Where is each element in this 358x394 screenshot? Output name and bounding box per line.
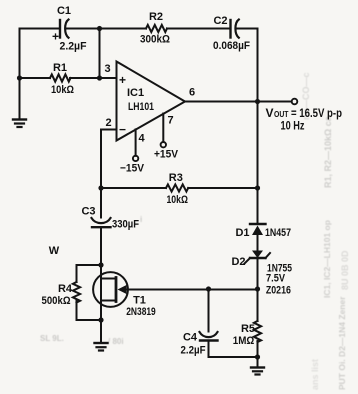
- svg-text:R2: R2: [149, 11, 163, 23]
- svg-text:1N457: 1N457: [265, 227, 291, 239]
- svg-text:C1: C1: [57, 5, 71, 17]
- svg-text:8U 0B 0D: 8U 0B 0D: [340, 250, 350, 290]
- svg-text:W: W: [49, 245, 60, 257]
- svg-text:+: +: [52, 30, 59, 44]
- svg-text:2N3819: 2N3819: [126, 306, 156, 318]
- svg-text:i: i: [140, 215, 142, 224]
- svg-text:D1: D1: [235, 227, 249, 239]
- svg-text:T1: T1: [133, 295, 146, 307]
- svg-text:IC1, IC2—LH101 op: IC1, IC2—LH101 op: [322, 220, 332, 298]
- svg-text:330µF: 330µF: [112, 219, 139, 231]
- svg-text:SL 9L.: SL 9L.: [40, 334, 64, 343]
- svg-text:R5: R5: [241, 323, 255, 335]
- svg-text:= 16.5V p-p: = 16.5V p-p: [291, 108, 342, 120]
- svg-text:D2: D2: [231, 256, 245, 268]
- svg-text:7: 7: [167, 115, 173, 127]
- svg-text:300kΩ: 300kΩ: [140, 34, 170, 46]
- svg-text:OUT: OUT: [274, 109, 289, 119]
- svg-text:LH101: LH101: [128, 101, 154, 113]
- svg-text:Z0216: Z0216: [266, 285, 291, 297]
- svg-text:R3: R3: [169, 172, 183, 184]
- svg-text:V: V: [266, 106, 274, 120]
- svg-text:R1: R1: [53, 62, 67, 74]
- svg-text:ans list: ans list: [310, 359, 320, 390]
- svg-text:2: 2: [105, 117, 111, 129]
- svg-text:6: 6: [189, 87, 195, 99]
- svg-text:C3: C3: [81, 206, 95, 218]
- svg-text:PUT Oi. D2—1N4 Zener: PUT Oi. D2—1N4 Zener: [337, 296, 347, 390]
- svg-text:C2: C2: [213, 15, 227, 27]
- svg-text:IC1: IC1: [127, 87, 144, 99]
- svg-text:10kΩ: 10kΩ: [51, 84, 74, 96]
- svg-text:−15V: −15V: [120, 163, 145, 175]
- svg-text:/ 80i: / 80i: [108, 337, 124, 346]
- svg-text:3: 3: [104, 63, 110, 75]
- svg-text:10kΩ: 10kΩ: [166, 194, 188, 206]
- svg-text:R1, R2—10kΩ ca: R1, R2—10kΩ ca: [323, 115, 333, 188]
- svg-text:R4: R4: [58, 283, 73, 295]
- svg-text:7.5V: 7.5V: [266, 273, 286, 285]
- svg-text:C4: C4: [183, 332, 198, 344]
- svg-text:+15V: +15V: [154, 149, 179, 161]
- svg-text:500kΩ: 500kΩ: [42, 295, 71, 307]
- svg-text:2.2µF: 2.2µF: [181, 345, 206, 357]
- svg-text:0.068µF: 0.068µF: [213, 40, 250, 52]
- svg-text:4: 4: [138, 133, 145, 145]
- svg-text:−: −: [119, 123, 126, 137]
- svg-text:+: +: [119, 73, 126, 87]
- svg-text:10 Hz: 10 Hz: [281, 121, 305, 133]
- svg-text:1MΩ: 1MΩ: [233, 335, 255, 347]
- svg-text:2.2µF: 2.2µF: [60, 41, 87, 53]
